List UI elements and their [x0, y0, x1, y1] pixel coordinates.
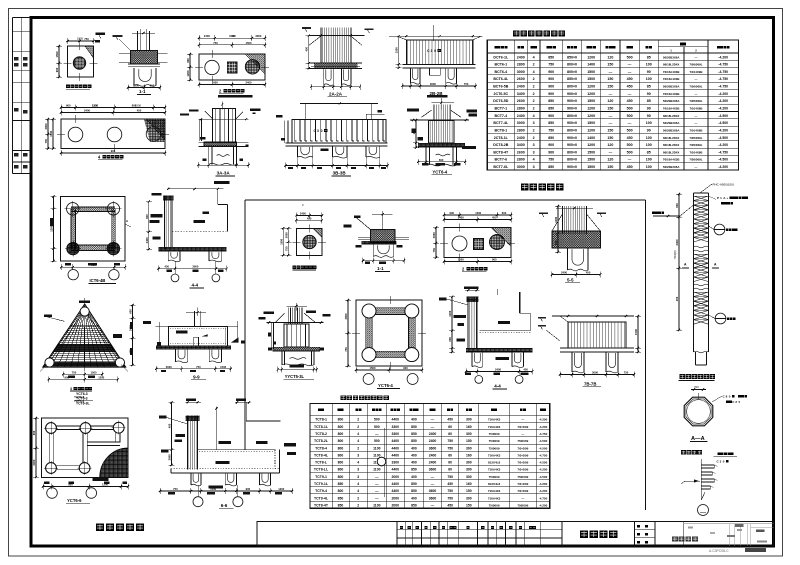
svg-text:2400: 2400 — [429, 439, 437, 443]
svg-text:1500: 1500 — [135, 103, 142, 107]
svg-text:1200: 1200 — [98, 375, 104, 379]
svg-text:—: — — [521, 496, 524, 500]
svg-text:160: 160 — [466, 425, 472, 429]
svg-text:850: 850 — [548, 55, 554, 59]
detail: four pile ring beam plan YCT6-4 — [344, 296, 426, 385]
svg-text:7Ф16A4X3B: 7Ф16A4X3B — [663, 107, 680, 111]
svg-text:3000: 3000 — [44, 123, 48, 129]
svg-text:850: 850 — [548, 165, 554, 169]
svg-text:800: 800 — [338, 446, 344, 450]
svg-text:YCT6-4: YCT6-4 — [432, 169, 447, 174]
svg-text:4: 4 — [533, 114, 535, 118]
svg-text:500: 500 — [627, 55, 633, 59]
svg-text:900: 900 — [111, 149, 116, 153]
detail: bored pile section YYCT5-3L — [259, 303, 331, 372]
detail: section 9-9 — [143, 308, 245, 373]
svg-text:7Ф14X9B: 7Ф14X9B — [690, 107, 703, 111]
svg-text:7Ф16A4X3B: 7Ф16A4X3B — [663, 92, 680, 96]
svg-text:TCT8-4T: TCT8-4T — [314, 503, 329, 507]
svg-text:60: 60 — [448, 461, 452, 465]
svg-text:1200: 1200 — [587, 55, 595, 59]
svg-text:3000: 3000 — [192, 265, 198, 269]
svg-text:100: 100 — [646, 165, 652, 169]
svg-text:600: 600 — [129, 309, 133, 314]
svg-text:75Ф009: 75Ф009 — [517, 439, 528, 443]
svg-text:4-4: 4-4 — [494, 384, 501, 389]
svg-text:2400: 2400 — [32, 459, 36, 465]
label 2桩承台配筋 — [219, 89, 244, 94]
svg-text:750: 750 — [624, 371, 629, 375]
svg-text:1500: 1500 — [587, 77, 595, 81]
svg-text:150: 150 — [607, 107, 613, 111]
detail: two pile cap plan — [186, 34, 269, 88]
svg-text:850: 850 — [338, 496, 344, 500]
svg-text:A.C3PC08-C: A.C3PC08-C — [709, 549, 729, 553]
svg-text:TCT8-1: TCT8-1 — [315, 418, 327, 422]
svg-text:800: 800 — [338, 461, 344, 465]
svg-text:700: 700 — [694, 385, 699, 389]
svg-text:4: 4 — [533, 70, 535, 74]
svg-text:-4.500: -4.500 — [539, 475, 548, 479]
svg-text:-4.750: -4.750 — [718, 150, 728, 154]
svg-text:900: 900 — [186, 58, 190, 63]
svg-text:300: 300 — [466, 432, 472, 436]
svg-text:-4.200: -4.200 — [718, 128, 728, 132]
svg-text:1500: 1500 — [587, 99, 595, 103]
svg-text:1100: 1100 — [373, 453, 380, 457]
svg-text:900: 900 — [548, 70, 554, 74]
svg-text:7Ф16A4X3B: 7Ф16A4X3B — [663, 158, 680, 162]
svg-text:450: 450 — [586, 271, 591, 275]
svg-text:2: 2 — [357, 446, 359, 450]
svg-text:1200: 1200 — [133, 84, 139, 88]
svg-text:7Ф Ф09: 7Ф Ф09 — [517, 446, 528, 450]
svg-text:—: — — [609, 114, 613, 118]
svg-text:85: 85 — [647, 99, 651, 103]
svg-text:400: 400 — [411, 461, 417, 465]
title block drawing name 承台详图 — [561, 522, 563, 547]
svg-text:TCT9-1L: TCT9-1L — [314, 482, 329, 486]
svg-text:2400: 2400 — [429, 461, 437, 465]
detail: pile cross-section octagon A-A — [684, 385, 747, 426]
svg-text:3A-3A: 3A-3A — [217, 171, 231, 176]
svg-text:120: 120 — [607, 99, 613, 103]
svg-text:—: — — [609, 70, 613, 74]
svg-text:-4.200: -4.200 — [718, 143, 728, 147]
label 桩尖详图 — [681, 450, 702, 455]
svg-text:450: 450 — [137, 109, 142, 113]
svg-text:2400: 2400 — [84, 109, 90, 113]
svg-text:450: 450 — [523, 368, 528, 372]
detail: bored pile section 1-1 (box) — [344, 211, 409, 264]
svg-text:2: 2 — [533, 128, 535, 132]
svg-text:850: 850 — [411, 439, 417, 443]
svg-text:300: 300 — [466, 461, 472, 465]
svg-text:TCT9-4L: TCT9-4L — [314, 496, 329, 500]
detail: wide bored cap section 7B-7B — [538, 315, 641, 378]
svg-text:90: 90 — [647, 128, 651, 132]
svg-text:85: 85 — [647, 150, 651, 154]
svg-text:2400: 2400 — [495, 368, 501, 372]
svg-text:BCT7-4: BCT7-4 — [495, 114, 508, 118]
svg-text:DCT6-1L: DCT6-1L — [493, 55, 509, 59]
svg-text:—: — — [695, 92, 698, 96]
svg-text:8Ф18L2D4X: 8Ф18L2D4X — [663, 63, 679, 67]
detail: section 2A-2A — [302, 27, 373, 90]
svg-text:2: 2 — [357, 418, 359, 422]
svg-text:400: 400 — [411, 418, 417, 422]
svg-text:716A4X3: 716A4X3 — [488, 418, 501, 422]
svg-text:300: 300 — [466, 475, 472, 479]
section marker circle top — [714, 224, 725, 235]
svg-text:900×0: 900×0 — [567, 165, 577, 169]
svg-text:—: — — [695, 121, 698, 125]
svg-text:2400: 2400 — [145, 237, 149, 243]
svg-text:1200: 1200 — [587, 143, 595, 147]
svg-text:-4.500: -4.500 — [718, 114, 728, 118]
svg-text:900: 900 — [66, 104, 71, 108]
table title 预制桩承台一览表 — [341, 395, 389, 400]
svg-text:300: 300 — [466, 496, 472, 500]
svg-text:3B-3B: 3B-3B — [333, 171, 347, 176]
svg-text:2CT6-5C: 2CT6-5C — [494, 92, 509, 96]
svg-text:750: 750 — [196, 365, 201, 369]
svg-text:1500: 1500 — [220, 365, 226, 369]
svg-text:750: 750 — [447, 446, 453, 450]
svg-text:4-4: 4-4 — [192, 283, 199, 288]
svg-text:85: 85 — [647, 55, 651, 59]
svg-text:900: 900 — [548, 77, 554, 81]
svg-text:450: 450 — [305, 46, 309, 51]
svg-text:150: 150 — [607, 63, 613, 67]
svg-text:2400: 2400 — [561, 271, 567, 275]
A-A cut marks on pile — [682, 267, 689, 269]
svg-text:60: 60 — [448, 425, 452, 429]
svg-text:BCT7-4L: BCT7-4L — [493, 121, 509, 125]
svg-text:2: 2 — [357, 503, 359, 507]
svg-text:1500: 1500 — [92, 103, 99, 107]
svg-text:5-5: 5-5 — [567, 278, 574, 283]
svg-text:-4.750: -4.750 — [718, 77, 728, 81]
label 4桩承台配筋 — [98, 155, 123, 160]
svg-text:—: — — [521, 418, 524, 422]
label 佛孔桩承台配筋 — [462, 267, 487, 272]
top leader notes — [700, 184, 712, 193]
svg-text:7Ф5Ф09L: 7Ф5Ф09L — [689, 158, 702, 162]
svg-text:-4.500: -4.500 — [539, 446, 548, 450]
table title 桩基承台一览表 — [513, 30, 565, 36]
svg-text:800: 800 — [338, 489, 344, 493]
svg-text:900: 900 — [492, 258, 497, 262]
svg-text:800: 800 — [338, 432, 344, 436]
svg-text:3000: 3000 — [255, 34, 261, 38]
binding strip zone marks — [14, 57, 28, 168]
svg-text:4400: 4400 — [392, 482, 400, 486]
detail: engineering pile elevation 工程桩大样图 — [652, 183, 748, 366]
svg-text:4: 4 — [357, 461, 359, 465]
svg-text:750: 750 — [464, 82, 469, 86]
labels under triangular plan — [70, 387, 92, 391]
svg-text:800×0: 800×0 — [567, 70, 577, 74]
title block outline — [257, 522, 774, 547]
svg-text:4: 4 — [357, 432, 359, 436]
svg-text:TCT8-LL: TCT8-LL — [314, 468, 329, 472]
svg-text:-4.500: -4.500 — [539, 461, 548, 465]
svg-text:850: 850 — [548, 99, 554, 103]
detail: four pile plan ICT6-4B — [50, 195, 132, 280]
svg-text:-4.200: -4.200 — [539, 425, 548, 429]
svg-text:1400: 1400 — [587, 63, 595, 67]
svg-text:900: 900 — [548, 114, 554, 118]
svg-text:900×0: 900×0 — [567, 143, 577, 147]
svg-text:2400: 2400 — [675, 239, 679, 245]
svg-text:600: 600 — [213, 81, 218, 85]
svg-text:7B-7B: 7B-7B — [584, 382, 596, 387]
svg-text:3300: 3300 — [392, 432, 400, 436]
svg-text:1400: 1400 — [587, 136, 595, 140]
svg-text:3000: 3000 — [432, 232, 436, 238]
svg-text:DCT8-2B: DCT8-2B — [493, 143, 509, 147]
svg-text:3300: 3300 — [392, 425, 400, 429]
svg-text:75Ф009: 75Ф009 — [489, 432, 500, 436]
svg-text:BCT8-1: BCT8-1 — [495, 128, 508, 132]
svg-text:A—A: A—A — [691, 436, 705, 442]
svg-text:—: — — [695, 114, 698, 118]
svg-text:2400: 2400 — [429, 453, 437, 457]
svg-text:-4.500: -4.500 — [718, 136, 728, 140]
svg-text:75Ф009: 75Ф009 — [489, 503, 500, 507]
svg-text:+: + — [726, 196, 728, 200]
detail: section 1-1 — [113, 29, 168, 91]
svg-text:BCT8-4T: BCT8-4T — [493, 150, 509, 154]
bored pile section enclosing box top edge — [245, 199, 646, 201]
bored pile section enclosing box right edge — [645, 200, 647, 510]
svg-text:1100: 1100 — [373, 446, 380, 450]
svg-text:1500: 1500 — [587, 165, 595, 169]
svg-text:90: 90 — [647, 70, 651, 74]
svg-text:6-6: 6-6 — [221, 503, 228, 508]
svg-text:450: 450 — [627, 77, 633, 81]
svg-text:150: 150 — [607, 165, 613, 169]
svg-text:500: 500 — [627, 114, 633, 118]
svg-text:3600: 3600 — [429, 468, 437, 472]
svg-text:1200: 1200 — [475, 211, 481, 215]
svg-text:2: 2 — [533, 99, 535, 103]
svg-text:160: 160 — [466, 453, 472, 457]
svg-text:—: — — [628, 63, 632, 67]
pile circles below B5 — [475, 376, 483, 384]
svg-text:150: 150 — [466, 503, 472, 507]
svg-text:750: 750 — [213, 41, 218, 45]
svg-text:YCT6-6: YCT6-6 — [67, 498, 82, 503]
svg-text:7Ф5Ф09L: 7Ф5Ф09L — [689, 85, 702, 89]
svg-text:3000: 3000 — [517, 70, 525, 74]
svg-text:1500: 1500 — [458, 258, 464, 262]
svg-text:150: 150 — [466, 489, 472, 493]
svg-text:4400: 4400 — [392, 418, 400, 422]
svg-text:2800: 2800 — [517, 158, 525, 162]
svg-text:2: 2 — [533, 136, 535, 140]
detail: single bored pile cap plan — [279, 212, 326, 260]
svg-text:750: 750 — [447, 496, 453, 500]
svg-text:4400: 4400 — [392, 489, 400, 493]
svg-text:75Ф009: 75Ф009 — [489, 475, 500, 479]
svg-text:3: 3 — [533, 150, 535, 154]
svg-text:900×0: 900×0 — [567, 92, 577, 96]
svg-text:—: — — [521, 432, 524, 436]
svg-text:850: 850 — [411, 482, 417, 486]
svg-text:850: 850 — [548, 121, 554, 125]
svg-text:2000: 2000 — [392, 496, 400, 500]
svg-text:-4.200: -4.200 — [718, 165, 728, 169]
svg-text:TCT8-1L: TCT8-1L — [314, 425, 329, 429]
svg-text:900: 900 — [55, 67, 59, 72]
detail: section 6-6 (precast) — [159, 398, 296, 506]
svg-text:3: 3 — [70, 387, 72, 391]
svg-text:—: — — [609, 121, 613, 125]
svg-text:BCT7-6L: BCT7-6L — [493, 165, 509, 169]
svg-text:850: 850 — [338, 482, 344, 486]
svg-text:-4.200: -4.200 — [718, 107, 728, 111]
svg-text:2400: 2400 — [517, 136, 525, 140]
svg-text:850: 850 — [411, 489, 417, 493]
svg-text:2400: 2400 — [517, 85, 525, 89]
svg-text:900×0: 900×0 — [567, 136, 577, 140]
svg-text:100: 100 — [646, 63, 652, 67]
svg-text:75Ф009: 75Ф009 — [489, 446, 500, 450]
svg-text:2400: 2400 — [300, 212, 306, 216]
svg-text:7Ф14X9B: 7Ф14X9B — [690, 150, 703, 154]
svg-text:1500: 1500 — [370, 366, 376, 370]
svg-text:4400: 4400 — [392, 468, 400, 472]
svg-text:450: 450 — [165, 265, 170, 269]
svg-text:8Ф18L2D4X: 8Ф18L2D4X — [663, 114, 679, 118]
svg-text:800: 800 — [338, 425, 344, 429]
svg-text:900×0: 900×0 — [567, 99, 577, 103]
svg-text:2000: 2000 — [392, 475, 400, 479]
svg-text:ICT6-4B: ICT6-4B — [90, 278, 106, 283]
detail: pile tip — [681, 459, 717, 516]
svg-text:3000: 3000 — [284, 232, 288, 238]
svg-text:-4.500: -4.500 — [718, 158, 728, 162]
svg-text:-4.750: -4.750 — [718, 70, 728, 74]
svg-text:850: 850 — [411, 432, 417, 436]
svg-text:2400: 2400 — [517, 55, 525, 59]
svg-text:450: 450 — [627, 136, 633, 140]
svg-text:3000: 3000 — [168, 454, 172, 460]
svg-text:7Ф14X9B: 7Ф14X9B — [690, 128, 703, 132]
svg-text:7Ф Ф09: 7Ф Ф09 — [517, 425, 528, 429]
svg-text:—: — — [609, 92, 613, 96]
svg-text:2600: 2600 — [517, 150, 525, 154]
svg-text:3: 3 — [357, 453, 359, 457]
svg-text:4: 4 — [357, 489, 359, 493]
svg-text:—: — — [628, 158, 632, 162]
svg-text:3600: 3600 — [429, 489, 437, 493]
svg-text:3: 3 — [431, 49, 433, 53]
svg-text:3300: 3300 — [392, 461, 400, 465]
svg-text:7Ф Ф09: 7Ф Ф09 — [517, 489, 528, 493]
detail: single pile cap plan — [55, 37, 98, 82]
svg-text:-4.750: -4.750 — [539, 496, 548, 500]
svg-text:5Ф20B3X6A: 5Ф20B3X6A — [663, 85, 681, 89]
svg-text:3000: 3000 — [430, 82, 436, 86]
svg-text:1200: 1200 — [50, 225, 54, 231]
svg-text:7Ф5Ф09L: 7Ф5Ф09L — [689, 136, 702, 140]
svg-text:1200: 1200 — [587, 114, 595, 118]
svg-text:1100: 1100 — [373, 468, 380, 472]
pile circles below ICT6-4B — [68, 270, 78, 280]
detail: corner wall section 4-4 (box) — [439, 286, 534, 383]
svg-text:1200: 1200 — [587, 107, 595, 111]
svg-text:600: 600 — [554, 240, 558, 245]
svg-text:500: 500 — [374, 439, 380, 443]
svg-text:150: 150 — [607, 77, 613, 81]
svg-text:100: 100 — [646, 121, 652, 125]
precast pile cap schedule table — [310, 404, 550, 509]
svg-text:120: 120 — [607, 55, 613, 59]
svg-text:BCT6-5B: BCT6-5B — [493, 85, 509, 89]
svg-text:2CT8-1L: 2CT8-1L — [494, 136, 509, 140]
svg-text:—: — — [628, 92, 632, 96]
svg-text:4400: 4400 — [392, 439, 400, 443]
svg-text:2: 2 — [533, 92, 535, 96]
svg-text:PHC-A500(100): PHC-A500(100) — [713, 183, 734, 187]
svg-text:2400: 2400 — [517, 114, 525, 118]
svg-text:450: 450 — [168, 423, 172, 428]
section marker circle bottom — [715, 313, 726, 324]
svg-text:1200: 1200 — [554, 216, 558, 222]
svg-text:—: — — [695, 55, 698, 59]
svg-text:1200: 1200 — [587, 92, 595, 96]
svg-text:812X4L8: 812X4L8 — [488, 461, 501, 465]
svg-text:3600: 3600 — [229, 34, 236, 38]
svg-text:850: 850 — [548, 136, 554, 140]
svg-text:600: 600 — [502, 211, 507, 215]
svg-text:DCT6-5D: DCT6-5D — [493, 99, 509, 103]
svg-text:2: 2 — [533, 85, 535, 89]
svg-text:-4.750: -4.750 — [539, 453, 548, 457]
detail: tall cap section YCT6-4 — [407, 95, 477, 166]
svg-text:900: 900 — [548, 92, 554, 96]
svg-text:1500: 1500 — [634, 329, 638, 335]
svg-text:2800: 2800 — [517, 128, 525, 132]
svg-text:2000: 2000 — [392, 503, 400, 507]
svg-text:2A-2A: 2A-2A — [329, 91, 343, 96]
svg-text:750: 750 — [447, 439, 453, 443]
svg-text:750: 750 — [173, 487, 178, 491]
svg-text:450: 450 — [627, 85, 633, 89]
svg-text:TCT8-4L: TCT8-4L — [314, 453, 329, 457]
svg-text:300: 300 — [466, 418, 472, 422]
svg-text:7Ф5Ф09L: 7Ф5Ф09L — [689, 99, 702, 103]
svg-text:2: 2 — [533, 107, 535, 111]
detail: four pile cap plan (long) — [44, 103, 169, 156]
svg-text:1-1: 1-1 — [139, 89, 146, 94]
detail: corner wall section 4-4 upper — [145, 188, 228, 282]
logo area small dark marks — [735, 524, 743, 527]
svg-text:75Ф009: 75Ф009 — [517, 475, 528, 479]
pile circles in plan (5) — [46, 423, 57, 434]
svg-text:TCT8-4: TCT8-4 — [315, 446, 327, 450]
svg-text:100: 100 — [646, 77, 652, 81]
svg-text:600: 600 — [145, 214, 149, 219]
svg-text:1500: 1500 — [587, 70, 595, 74]
svg-text:5Ф20B3X6A: 5Ф20B3X6A — [663, 99, 681, 103]
svg-text:2400: 2400 — [458, 216, 464, 220]
pile circles at corners (top outline, bottom hatched) — [67, 203, 79, 215]
svg-text:850: 850 — [411, 468, 417, 472]
